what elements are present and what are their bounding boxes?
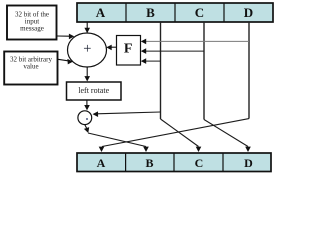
svg-text:+: + bbox=[83, 41, 91, 57]
wire B to small adder bbox=[93, 111, 161, 117]
box: 32 bit of the input message bbox=[7, 6, 57, 40]
wire B to F (bottom input) bbox=[141, 58, 161, 64]
box: left rotate bbox=[67, 82, 122, 100]
svg-text:A: A bbox=[97, 156, 106, 170]
wire C to F (middle input) bbox=[141, 48, 204, 54]
box F (round function) bbox=[117, 36, 141, 66]
svg-text:C: C bbox=[195, 156, 204, 170]
wire A to adder bbox=[84, 22, 90, 33]
wire D to new A (long diagonal) bbox=[99, 119, 249, 152]
adder ellipse U1 (+) bbox=[68, 33, 107, 67]
svg-text:left rotate: left rotate bbox=[78, 86, 109, 95]
box: 32 bit arbitrary value bbox=[4, 52, 57, 85]
adder circle U2 (small) bbox=[78, 111, 92, 125]
register row bottom (A B C D) bbox=[77, 153, 271, 172]
svg-text:B: B bbox=[145, 156, 153, 170]
wire C to new D (diagonal) bbox=[204, 120, 251, 153]
wire input-message box to adder bbox=[57, 34, 74, 40]
svg-text:C: C bbox=[195, 5, 204, 20]
svg-text:F: F bbox=[124, 41, 133, 56]
wire adder to left rotate bbox=[84, 67, 90, 82]
svg-text:value: value bbox=[23, 63, 38, 71]
wire left rotate to small adder bbox=[84, 100, 90, 110]
wire B to new C (diagonal) bbox=[161, 119, 202, 152]
wire small adder output (short arrow) bbox=[84, 125, 89, 133]
register row top (A B C D) bbox=[77, 3, 273, 22]
wire small adder to new B (diagonal) bbox=[88, 133, 149, 152]
svg-text:D: D bbox=[244, 5, 253, 20]
wire arbitrary-value box to adder bbox=[58, 59, 73, 65]
svg-text:A: A bbox=[96, 5, 106, 20]
wire C vertical bbox=[203, 22, 205, 120]
wire B vertical bbox=[160, 22, 162, 119]
svg-text:B: B bbox=[146, 5, 155, 20]
wire F to adder bbox=[106, 45, 116, 51]
svg-text:message: message bbox=[20, 25, 44, 33]
wire D to F (top input) bbox=[141, 39, 249, 45]
svg-text:D: D bbox=[244, 156, 253, 170]
wire D vertical bbox=[248, 22, 250, 119]
